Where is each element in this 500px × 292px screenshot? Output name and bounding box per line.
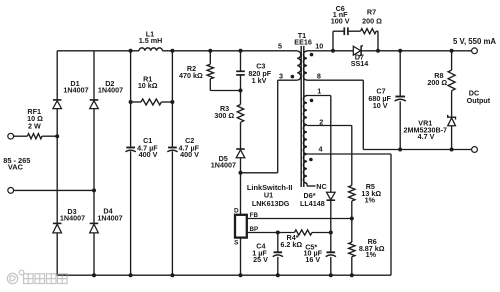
AC input terminal (top) (8, 133, 28, 139)
wire: pin 10 to D7 (307, 50, 353, 52)
svg-text:1N4007: 1N4007 (98, 85, 123, 94)
resistor R8 200 (427, 51, 455, 117)
diode D6 LL4148 (300, 191, 335, 233)
output terminal (+) (472, 48, 478, 54)
transformer T1 secondary winding (pins 10-8) (303, 41, 323, 80)
wire: drain net (241, 80, 298, 173)
phase dot bias (310, 99, 314, 103)
snubber resistor R7 200 (361, 8, 383, 51)
wire: FB line (247, 218, 352, 220)
diode D3 1N4007 (53, 207, 85, 233)
svg-text:400 V: 400 V (139, 150, 158, 159)
capacitor C7 680uF 10V (368, 51, 405, 152)
wire: D7 cathode to output+ (361, 50, 472, 52)
phase dot bias lower (309, 158, 313, 162)
svg-text:EE16: EE16 (294, 37, 312, 46)
transformer T1 bias winding (pins 1-2-4) (303, 86, 323, 183)
svg-text:Output: Output (467, 96, 491, 105)
svg-text:VAC: VAC (8, 162, 24, 171)
svg-text:1%: 1% (365, 196, 376, 205)
wire: NC stub (307, 182, 327, 191)
node: ground/C1 (129, 273, 133, 277)
diode D2 1N4007 (90, 79, 123, 109)
svg-text:10 kΩ: 10 kΩ (138, 81, 158, 90)
wire: C2 column (171, 51, 173, 275)
label DC Output (467, 88, 491, 105)
svg-text:2 W: 2 W (28, 121, 41, 130)
inductor L1 1.5 mH (139, 29, 163, 50)
svg-text:6.2 kΩ: 6.2 kΩ (280, 240, 302, 249)
transformer T1 core (294, 31, 312, 187)
wire: clamp bottom (210, 90, 240, 92)
phase dot primary (291, 75, 295, 79)
svg-text:R7: R7 (367, 8, 376, 17)
svg-text:D: D (234, 208, 239, 215)
capacitor C5 10uF 16V (304, 233, 336, 278)
capacitor C3 820pF 1kV (236, 51, 272, 91)
svg-text:200 Ω: 200 Ω (427, 78, 447, 87)
svg-text:NC: NC (316, 182, 326, 191)
label 85-265 VAC (3, 156, 30, 172)
svg-text:5: 5 (278, 41, 282, 50)
svg-text:10 V: 10 V (373, 101, 388, 110)
node: FB to divider (350, 217, 354, 221)
svg-text:LNK613DG: LNK613DG (252, 199, 290, 208)
svg-text:8: 8 (317, 72, 321, 81)
wire: pin 4 return (307, 154, 391, 275)
transformer T1 primary winding (pins 5-3) (278, 41, 301, 80)
node: BP/C4 (276, 231, 280, 235)
node: RF1 to D1/D3 column (55, 134, 59, 138)
node: ground/C2 (170, 273, 174, 277)
svg-text:100 V: 100 V (331, 16, 350, 25)
svg-text:1.5 mH: 1.5 mH (139, 36, 163, 45)
wire: top rail from bridge to L1 (57, 50, 139, 52)
svg-text:10: 10 (315, 41, 323, 50)
wire: pin 2 to divider (307, 126, 352, 186)
wire: D1/D3 column (56, 51, 58, 275)
resistor R4 6.2k (280, 230, 330, 249)
wire: D2/D4 column (93, 51, 95, 275)
svg-text:1 kV: 1 kV (252, 76, 267, 85)
output terminal (-) (472, 147, 478, 153)
svg-text:4: 4 (319, 144, 323, 153)
AC input terminal (bottom) (8, 188, 94, 194)
node: drain junction (239, 171, 243, 175)
svg-text:1: 1 (317, 86, 321, 95)
wire: pin 1 to D6 (307, 96, 331, 193)
svg-text:S: S (234, 240, 239, 247)
svg-text:400 V: 400 V (180, 150, 199, 159)
svg-text:25 V: 25 V (253, 255, 268, 264)
node: rail/C1 column (129, 49, 133, 53)
resistor R2 470k (179, 51, 213, 91)
wire: primary ground rail (57, 274, 391, 276)
wire: BP line (247, 232, 295, 234)
wire: rail from L1 to T1 pin 5 (162, 50, 297, 52)
wire: drain to U1 (240, 173, 242, 215)
diode D5 1N4007 (211, 149, 245, 173)
node: snubber right (376, 49, 380, 53)
svg-text:3: 3 (279, 71, 283, 80)
svg-text:1N4007: 1N4007 (63, 85, 88, 94)
resistor R3 300 (214, 91, 243, 149)
resistor R6 8.87k 1% (349, 237, 385, 277)
node: AC2 to D2/D4 column (92, 188, 96, 192)
wire: U1 source to ground rail (239, 238, 243, 277)
svg-text:1N4007: 1N4007 (211, 161, 236, 170)
label 5V 550mA (453, 37, 496, 46)
svg-text:1N4007: 1N4007 (60, 213, 85, 222)
capacitor C1 4.7uF 400V (126, 136, 159, 159)
svg-text:1%: 1% (366, 250, 377, 259)
node: rail/C3 (239, 49, 243, 53)
zener VR1 2MM5230B-7 (404, 115, 456, 152)
svg-text:16 V: 16 V (305, 255, 320, 264)
phase dot secondary (310, 53, 314, 57)
snubber capacitor C6 1nF 100V (331, 4, 361, 51)
node: R8 top (450, 49, 454, 53)
wire: pin 8 return (307, 80, 363, 149)
node: clamp junction (239, 89, 243, 93)
svg-text:4.7 V: 4.7 V (418, 132, 435, 141)
op-amp U1 LNK613DG (LinkSwitch-II IC) (234, 183, 293, 247)
node: C7 top (398, 49, 402, 53)
wire: C1 column (130, 51, 132, 275)
diode D7 SS14 (351, 46, 369, 68)
node: R4/C5/D6 (329, 231, 333, 235)
capacitor C4 1uF 25V (252, 233, 283, 278)
resistor RF1 (27, 107, 56, 139)
svg-text:SS14: SS14 (351, 59, 369, 68)
resistor R5 13k 1% (349, 182, 382, 242)
node: snubber left (331, 49, 335, 53)
svg-text:1N4007: 1N4007 (97, 213, 122, 222)
node: ground/D4 (92, 273, 96, 277)
svg-text:470 kΩ: 470 kΩ (179, 71, 203, 80)
diode D1 1N4007 (53, 79, 89, 109)
node: rail/R2 (208, 49, 212, 53)
svg-text:300 Ω: 300 Ω (214, 111, 234, 120)
svg-text:LL4148: LL4148 (300, 199, 325, 208)
capacitor C2 4.7uF 400V (167, 136, 199, 159)
svg-text:200 Ω: 200 Ω (362, 16, 382, 25)
watermark (7, 270, 67, 284)
node: rail/C2 column (170, 49, 174, 53)
svg-text:5 V, 550 mA: 5 V, 550 mA (453, 37, 496, 46)
diode D4 1N4007 (90, 207, 123, 233)
resistor R1 10k (129, 74, 175, 105)
wire: secondary bottom rail (363, 149, 471, 151)
